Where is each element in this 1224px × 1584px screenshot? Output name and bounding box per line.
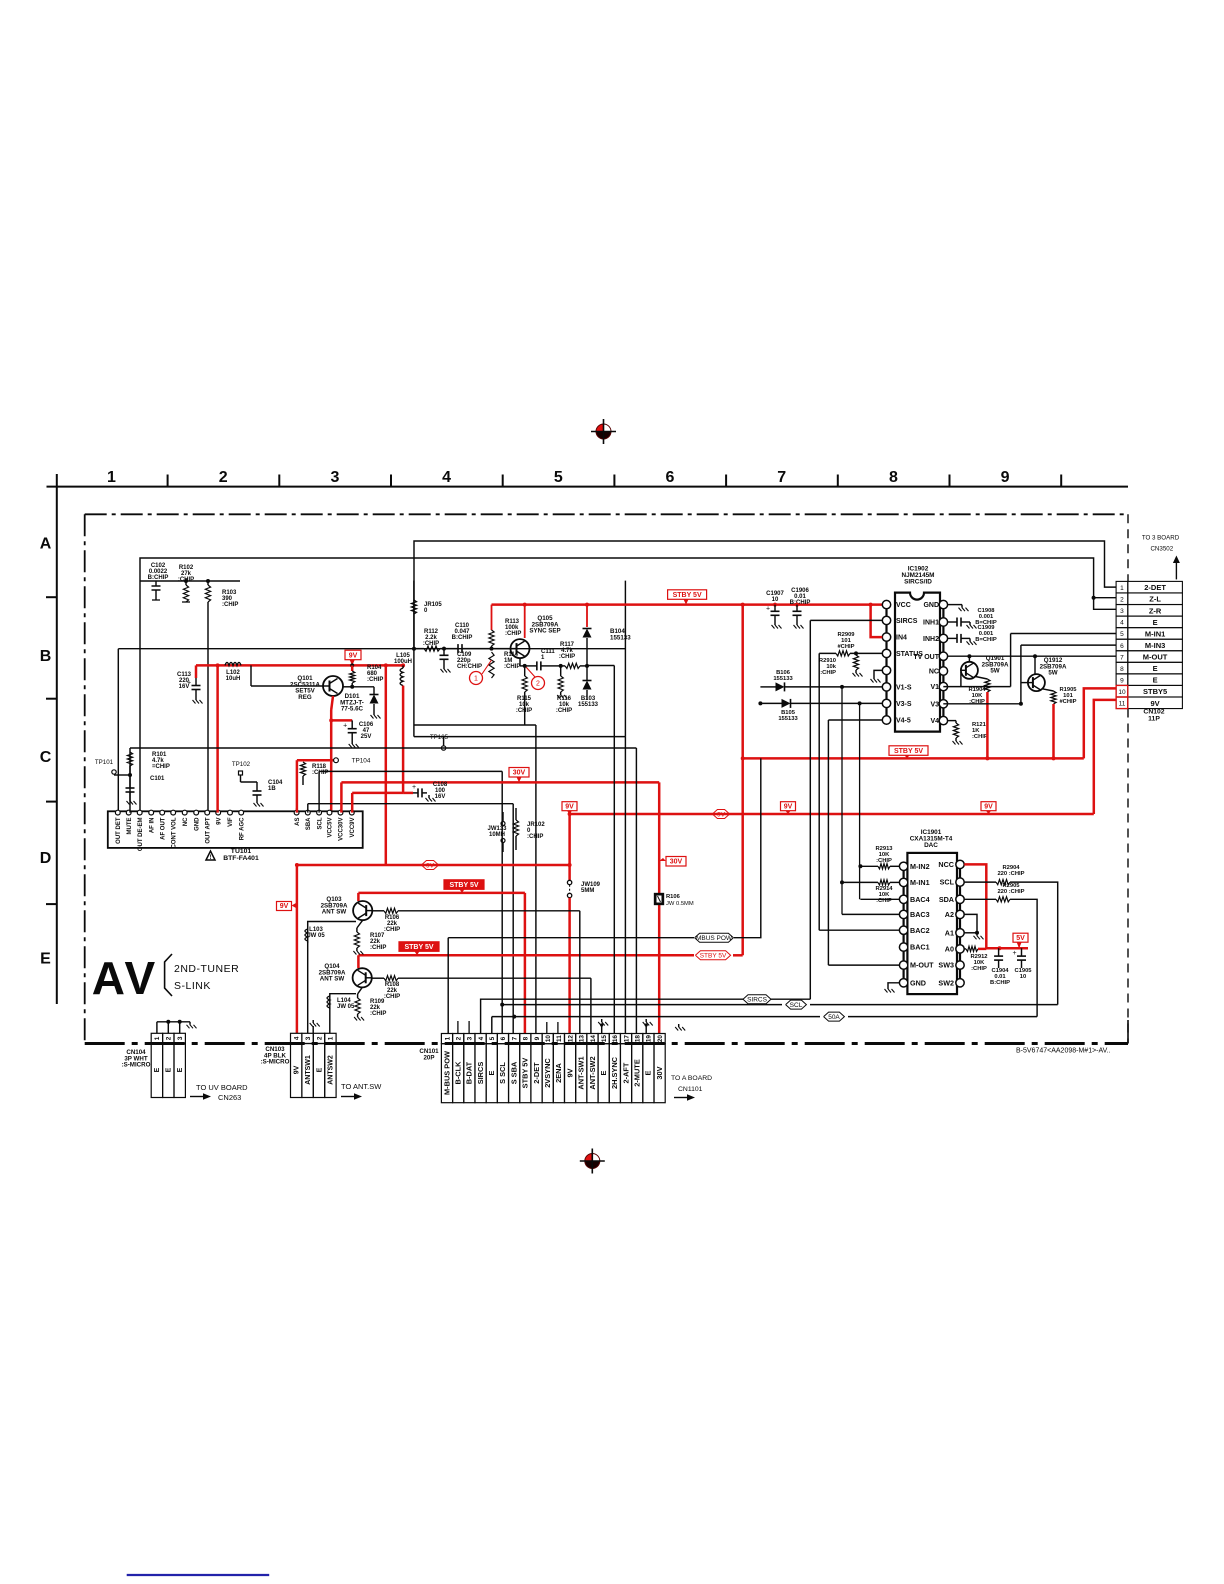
svg-text:TP102: TP102 — [232, 761, 251, 768]
wire Q101 collector — [343, 686, 352, 688]
svg-text::CHIP: :CHIP — [559, 654, 575, 660]
svg-text:TP105: TP105 — [430, 734, 449, 741]
wire BAC2 stub — [819, 929, 899, 931]
svg-text:JW 05: JW 05 — [307, 933, 325, 939]
svg-text:8: 8 — [523, 1036, 530, 1040]
svg-text:TO A BOARD: TO A BOARD — [671, 1075, 712, 1082]
svg-text:L102: L102 — [226, 670, 240, 676]
svg-text:7: 7 — [777, 469, 786, 486]
svg-text:220p: 220p — [457, 658, 471, 664]
svg-text:2H.SYNC: 2H.SYNC — [610, 1056, 619, 1089]
svg-text:20: 20 — [657, 1035, 664, 1043]
svg-text:C101: C101 — [150, 776, 165, 782]
label STBY 5V mid — [889, 746, 928, 756]
svg-text:BTF-FA401: BTF-FA401 — [223, 855, 259, 862]
svg-text:BAC4: BAC4 — [910, 895, 930, 904]
svg-text:VCC: VCC — [896, 602, 911, 609]
label STBY 5V — [668, 590, 707, 600]
svg-text::CHIP: :CHIP — [384, 994, 400, 1000]
svg-text:1: 1 — [107, 469, 116, 486]
wire SCL tag — [810, 1004, 1058, 1006]
capacitor C1909 INH2 — [948, 637, 952, 639]
svg-text:CN3502: CN3502 — [1150, 546, 1173, 553]
svg-text:#CHIP: #CHIP — [837, 644, 854, 650]
svg-text:NCC: NCC — [938, 860, 954, 869]
registration mark top — [591, 419, 616, 444]
svg-text:9V: 9V — [784, 803, 793, 810]
IC1901 right pins — [956, 860, 964, 868]
svg-text:5: 5 — [489, 1036, 496, 1040]
svg-text:SYNC SEP: SYNC SEP — [529, 628, 560, 635]
svg-text:GND: GND — [910, 978, 926, 987]
svg-text:9V: 9V — [294, 1065, 301, 1074]
svg-text:11: 11 — [1119, 701, 1126, 708]
svg-text:1: 1 — [444, 1036, 451, 1040]
svg-text:9V: 9V — [349, 652, 358, 659]
svg-text:B-5V6747<AA2098-M#1>-AV..: B-5V6747<AA2098-M#1>-AV.. — [1016, 1048, 1111, 1055]
svg-text:TO UV BOARD: TO UV BOARD — [196, 1083, 248, 1092]
svg-text:OUT DE-EM: OUT DE-EM — [138, 818, 144, 852]
wire to CN101 pin5 — [491, 1017, 493, 1034]
svg-text:1: 1 — [1120, 585, 1124, 592]
wire red down to R113 — [491, 605, 493, 630]
svg-text:GND: GND — [923, 602, 939, 609]
svg-text:16V: 16V — [435, 794, 446, 800]
IC1901 left pins — [899, 862, 907, 870]
svg-text::CHIP: :CHIP — [370, 1011, 386, 1017]
STBY5 rail to CN102 — [743, 757, 1084, 760]
svg-text:2.2k: 2.2k — [425, 635, 437, 641]
svg-text:20P: 20P — [423, 1054, 434, 1061]
svg-text:10MH: 10MH — [489, 832, 505, 838]
svg-text:R106: R106 — [385, 915, 400, 921]
svg-text:3: 3 — [330, 469, 339, 486]
svg-text:220 :CHIP: 220 :CHIP — [997, 889, 1024, 895]
svg-text:6: 6 — [666, 469, 675, 486]
svg-text:2: 2 — [1120, 597, 1124, 604]
svg-text:30V: 30V — [513, 770, 526, 777]
svg-text:12: 12 — [567, 1035, 574, 1043]
svg-text:C113: C113 — [177, 672, 192, 678]
wire M-OUT IC1901 — [828, 964, 899, 966]
svg-text:ANT-SW2: ANT-SW2 — [588, 1056, 597, 1089]
svg-text:STBY5: STBY5 — [1143, 687, 1167, 696]
svg-text:SIRCS: SIRCS — [896, 618, 918, 625]
svg-text:77-5.6C: 77-5.6C — [341, 706, 364, 713]
svg-text:ANT-SW1: ANT-SW1 — [577, 1056, 586, 1089]
capacitor C1908 INH1 — [948, 621, 952, 623]
svg-text:BAC2: BAC2 — [910, 926, 930, 935]
column ticks — [167, 475, 169, 487]
svg-text:9V: 9V — [984, 803, 993, 810]
svg-text:3: 3 — [177, 1036, 184, 1040]
svg-text:A1: A1 — [945, 928, 954, 937]
capacitor C108 — [403, 792, 413, 795]
svg-text:SW2: SW2 — [938, 978, 954, 987]
STBY to Q104 rail — [358, 954, 694, 957]
tag 9V second — [712, 810, 729, 819]
svg-text:7: 7 — [1120, 654, 1124, 661]
svg-text:M-IN1: M-IN1 — [1145, 629, 1165, 638]
wire SDA tag — [848, 1016, 1037, 1018]
svg-text:E: E — [1153, 676, 1158, 685]
wire SCL net — [318, 771, 320, 812]
wire ANT-SW2 down — [590, 978, 592, 1033]
ground right of CN101 — [678, 1024, 680, 1027]
svg-text:OUT APT: OUT APT — [205, 817, 211, 843]
label 9V cn103 — [277, 902, 292, 911]
svg-text:BAC1: BAC1 — [910, 943, 930, 952]
wire MBUS POW — [448, 937, 694, 939]
stubs above CN101 pins 10 11 — [546, 1022, 548, 1034]
9V line mid — [297, 864, 570, 867]
svg-text:C1906: C1906 — [791, 588, 809, 594]
svg-text:10: 10 — [1118, 689, 1126, 696]
svg-text:7: 7 — [511, 1036, 518, 1040]
svg-text::CHIP: :CHIP — [504, 664, 520, 670]
svg-text:3: 3 — [1120, 608, 1124, 615]
svg-text:0.0022: 0.0022 — [149, 569, 168, 575]
svg-text:B=CHIP: B=CHIP — [975, 637, 997, 643]
svg-text:L104: L104 — [337, 998, 351, 1004]
svg-text:390: 390 — [222, 596, 233, 602]
svg-text:B:CHIP: B:CHIP — [452, 635, 473, 641]
svg-text:9: 9 — [534, 1036, 541, 1040]
svg-text:STBY 5V: STBY 5V — [700, 953, 727, 960]
svg-text:100: 100 — [435, 788, 446, 794]
wire Q101 base left — [251, 685, 323, 687]
svg-text::CHIP: :CHIP — [527, 834, 543, 840]
svg-text:CN1101: CN1101 — [678, 1086, 703, 1093]
V1-S V3-S vertical nets — [841, 687, 843, 915]
svg-text:=CHIP: =CHIP — [152, 764, 170, 770]
svg-text:M-IN3: M-IN3 — [1145, 641, 1165, 650]
svg-text::CHIP: :CHIP — [312, 770, 328, 776]
svg-text:25V: 25V — [361, 734, 372, 740]
svg-text:0.01: 0.01 — [794, 594, 806, 600]
SIRCS wire — [810, 619, 882, 621]
Q105 emitter node — [519, 658, 521, 666]
svg-text:!: ! — [210, 855, 212, 861]
svg-text::CHIP: :CHIP — [971, 966, 987, 972]
svg-text::CHIP: :CHIP — [505, 631, 521, 637]
svg-text:2: 2 — [536, 681, 540, 688]
IC IC1901 body — [907, 853, 957, 994]
svg-text::CHIP: :CHIP — [222, 602, 238, 608]
pin5 ground — [874, 670, 882, 676]
svg-text:Z-R: Z-R — [1149, 606, 1162, 615]
svg-text:9V: 9V — [280, 903, 289, 910]
svg-text:SCL: SCL — [317, 817, 323, 829]
svg-text:SIRCS: SIRCS — [747, 997, 768, 1004]
svg-text:2: 2 — [219, 469, 228, 486]
svg-text:AS: AS — [295, 818, 301, 826]
svg-text:ANTSW1: ANTSW1 — [305, 1055, 312, 1085]
svg-text:TO ANT.SW: TO ANT.SW — [341, 1082, 382, 1091]
svg-text:C104: C104 — [268, 780, 283, 786]
svg-text:M-IN2: M-IN2 — [910, 862, 930, 871]
svg-text:SDA: SDA — [939, 895, 954, 904]
svg-text:155133: 155133 — [778, 716, 798, 722]
svg-text:TO 3 BOARD: TO 3 BOARD — [1142, 535, 1180, 542]
wire C102 bus — [140, 580, 240, 582]
STBY red down CN101 pin8 — [524, 893, 527, 1034]
svg-text:5W: 5W — [990, 668, 999, 675]
svg-text:1B: 1B — [268, 786, 276, 792]
svg-text:R104: R104 — [367, 665, 382, 671]
svg-text:15: 15 — [601, 1035, 608, 1043]
svg-text:4.7k: 4.7k — [561, 648, 573, 654]
CN3502 arrow — [1175, 560, 1177, 580]
svg-text:V4: V4 — [930, 718, 939, 725]
svg-text:AF OUT: AF OUT — [160, 817, 166, 840]
IC1902 right pins — [939, 600, 947, 608]
svg-text:R102: R102 — [179, 565, 194, 571]
ruler left line — [56, 474, 58, 1004]
Q103 emitter down R107 — [357, 920, 363, 928]
svg-text:R107: R107 — [370, 933, 385, 939]
svg-text::S-MICRO: :S-MICRO — [261, 1059, 290, 1066]
svg-text:2ND-TUNER: 2ND-TUNER — [174, 963, 239, 975]
svg-text:TP101: TP101 — [95, 759, 114, 766]
svg-text:10k: 10k — [559, 702, 570, 708]
connector CN104 — [151, 1033, 162, 1043]
svg-text:R114: R114 — [504, 652, 519, 658]
box outline inner — [118, 648, 625, 650]
svg-text:R118: R118 — [312, 764, 327, 770]
svg-text:MUTE: MUTE — [127, 818, 133, 835]
STBY5V vertical main red — [741, 605, 744, 956]
callout 2 red — [532, 677, 545, 690]
svg-text:STBY 5V: STBY 5V — [404, 944, 433, 951]
GND pin16 ground — [948, 604, 962, 606]
fusible resistor R106 jw — [655, 894, 664, 905]
NCC red — [964, 864, 1028, 948]
svg-text:4.7k: 4.7k — [152, 758, 164, 764]
wire SIRCS bottom — [771, 998, 810, 1000]
svg-text::CHIP: :CHIP — [972, 734, 988, 740]
svg-text:10: 10 — [772, 597, 779, 603]
9V rail to CN102 — [570, 813, 1094, 816]
label 30V second — [666, 857, 686, 867]
svg-text:JW 05: JW 05 — [337, 1004, 355, 1010]
svg-text:V1: V1 — [930, 684, 939, 691]
label 30V — [509, 768, 529, 778]
svg-text:10: 10 — [1020, 974, 1026, 980]
capacitor C1904 — [998, 948, 1000, 956]
svg-text:R109: R109 — [370, 999, 385, 1005]
svg-text:47: 47 — [363, 728, 370, 734]
svg-text:C1907: C1907 — [766, 591, 784, 597]
svg-text:R112: R112 — [424, 629, 439, 635]
svg-text:+: + — [187, 680, 191, 687]
jumper JW109 — [567, 880, 571, 884]
wire red down to B104 — [585, 603, 589, 607]
svg-text:Z-L: Z-L — [1149, 595, 1161, 604]
wire Q101 emitter to VCC5V red — [330, 710, 333, 813]
svg-text:17: 17 — [623, 1035, 630, 1043]
svg-text:REG: REG — [298, 694, 312, 701]
svg-text:INH1: INH1 — [923, 620, 939, 627]
svg-text:#CHIP: #CHIP — [1059, 699, 1076, 705]
svg-text:5V: 5V — [1016, 935, 1025, 942]
30V down to CN101 pin20 — [658, 782, 661, 1033]
CN101 grounds above 15 19 — [601, 1025, 603, 1034]
label 9V — [345, 650, 361, 660]
svg-text:BAC3: BAC3 — [910, 910, 930, 919]
frame left dash-dot — [84, 514, 86, 1043]
frame right dashed — [1127, 514, 1129, 581]
svg-text:2: 2 — [455, 1036, 462, 1040]
ruler top line — [47, 486, 1129, 488]
svg-text:STBY 5V: STBY 5V — [521, 1058, 530, 1089]
svg-text:OUT DET: OUT DET — [116, 817, 122, 844]
svg-text::CHIP: :CHIP — [367, 677, 383, 683]
svg-text:JR102: JR102 — [527, 822, 545, 828]
svg-text:ANTSW2: ANTSW2 — [328, 1055, 335, 1085]
svg-text:A0: A0 — [945, 945, 954, 954]
9V vertical to CN101 pin12 — [568, 811, 571, 880]
CN103 pin2 ground — [312, 1026, 314, 1033]
svg-text:155133: 155133 — [578, 702, 599, 708]
Q1912 base — [1021, 682, 1028, 684]
svg-text:C106: C106 — [359, 722, 374, 728]
svg-text:M-OUT: M-OUT — [910, 961, 934, 970]
svg-text:C: C — [40, 749, 52, 766]
svg-text:JW109: JW109 — [581, 882, 601, 888]
svg-text:IN4: IN4 — [896, 635, 907, 642]
tuner TU101 box — [108, 811, 363, 848]
svg-text:JR105: JR105 — [424, 602, 442, 608]
svg-text:B:CHIP: B:CHIP — [148, 575, 169, 581]
svg-text:SCL: SCL — [790, 1002, 803, 1009]
svg-text:155133: 155133 — [773, 676, 793, 682]
svg-text:GND: GND — [194, 817, 200, 831]
svg-text:9V: 9V — [426, 862, 435, 869]
svg-text:2-MUTE: 2-MUTE — [633, 1059, 642, 1087]
svg-text:13: 13 — [579, 1035, 586, 1043]
label STBY 5V solid 1 — [444, 880, 484, 890]
svg-text:SW3: SW3 — [938, 961, 954, 970]
svg-text:R101: R101 — [152, 752, 167, 758]
left verticals to CN101 16 17 18 — [587, 665, 615, 667]
svg-text:STBY 5V: STBY 5V — [449, 882, 478, 889]
svg-text:S SCL: S SCL — [498, 1062, 507, 1084]
9V feed to VCC9V via L105 — [352, 792, 403, 795]
test point TP104 red — [297, 759, 334, 762]
red 9V to tuner pin — [216, 665, 219, 812]
svg-text:SBA: SBA — [306, 817, 312, 830]
svg-text:R108: R108 — [385, 982, 400, 988]
svg-text:10uH: 10uH — [226, 676, 241, 682]
V4-5 R121 — [948, 720, 956, 722]
wire V1 to CN102 pin5 — [943, 686, 1010, 688]
svg-text:5: 5 — [554, 469, 563, 486]
svg-text:B: B — [40, 648, 52, 665]
9V rail red — [196, 664, 403, 667]
svg-text:E: E — [154, 1067, 161, 1072]
svg-text:9V: 9V — [1151, 699, 1160, 708]
svg-text:+: + — [766, 605, 770, 612]
svg-text:2-DET: 2-DET — [1144, 583, 1166, 592]
svg-text:M-IN1: M-IN1 — [910, 878, 930, 887]
svg-text:+: + — [412, 784, 416, 791]
wire L105 down red to VCC9V — [402, 686, 405, 793]
row ticks — [46, 596, 57, 598]
svg-text:VIF: VIF — [228, 817, 234, 827]
svg-text:L103: L103 — [309, 927, 323, 933]
label STBY 5V solid 2 — [399, 942, 439, 952]
CN102 red pins — [1116, 685, 1128, 697]
svg-text:10: 10 — [545, 1035, 552, 1043]
svg-text:E: E — [166, 1067, 173, 1072]
box outline B area — [413, 581, 415, 737]
svg-text:R106: R106 — [666, 894, 681, 900]
svg-text:11P: 11P — [1148, 715, 1160, 722]
svg-text:1: 1 — [328, 1036, 335, 1040]
svg-text:2: 2 — [316, 1036, 323, 1040]
svg-text:V4-5: V4-5 — [896, 718, 911, 725]
svg-text:SCL: SCL — [940, 878, 955, 887]
svg-text:2-AFT: 2-AFT — [621, 1062, 630, 1083]
svg-text:B:CHIP: B:CHIP — [990, 980, 1010, 986]
svg-text:M-BUS POW: M-BUS POW — [442, 1051, 451, 1095]
svg-text:30V: 30V — [670, 859, 683, 866]
svg-text:9: 9 — [1120, 677, 1124, 684]
svg-text:0.047: 0.047 — [454, 629, 470, 635]
svg-text:B-DAT: B-DAT — [465, 1061, 474, 1084]
svg-text:CONT VOL: CONT VOL — [171, 817, 177, 848]
svg-text:C108: C108 — [433, 782, 448, 788]
junction Z-L — [1092, 596, 1096, 600]
svg-text:6: 6 — [500, 1036, 507, 1040]
svg-text:V1-S: V1-S — [896, 685, 912, 692]
svg-text:S-LINK: S-LINK — [174, 980, 211, 992]
red wires into CN102 10 11 — [1084, 688, 1116, 758]
A0 red resistor — [966, 946, 978, 951]
title brace — [165, 954, 172, 996]
svg-text:9V: 9V — [216, 818, 222, 825]
STBY rail red top — [492, 603, 887, 606]
wire TV OUT to M-OUT — [948, 655, 1117, 657]
GND IC1901 — [888, 983, 899, 986]
IC1902 left pins — [882, 600, 890, 608]
wire V3 to CN102 pin6 — [943, 703, 1021, 705]
wire net Z-L / Z-R — [140, 558, 1116, 609]
svg-text:V3: V3 — [930, 701, 939, 708]
svg-text:5MM: 5MM — [581, 888, 594, 894]
svg-text:+: + — [343, 723, 347, 730]
svg-text:11: 11 — [556, 1035, 563, 1042]
svg-text:MBUS POW: MBUS POW — [696, 935, 733, 942]
svg-text:2: 2 — [166, 1036, 173, 1040]
svg-text:22k: 22k — [387, 921, 398, 927]
svg-text:C102: C102 — [151, 563, 166, 569]
svg-text:1M: 1M — [504, 658, 512, 664]
svg-text:TV OUT: TV OUT — [913, 654, 939, 661]
svg-text:155133: 155133 — [610, 634, 631, 641]
30V rail red — [341, 781, 659, 784]
svg-text:JW133: JW133 — [487, 826, 507, 832]
wire R103 to tuner APT — [207, 602, 209, 813]
svg-text:C111: C111 — [541, 649, 555, 655]
svg-text:AV: AV — [92, 952, 159, 1004]
svg-text:E: E — [599, 1070, 608, 1075]
svg-text:C110: C110 — [455, 623, 470, 629]
svg-text:R117: R117 — [560, 642, 575, 648]
capacitor C1905 — [1021, 948, 1023, 956]
svg-text:4: 4 — [1120, 620, 1124, 627]
